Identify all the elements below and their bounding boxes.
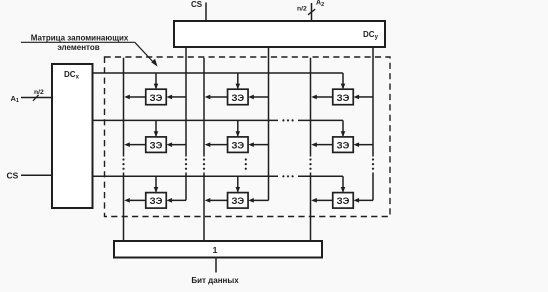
data line combiner box 1	[114, 241, 322, 258]
ellipsis on row wire X3	[282, 175, 293, 177]
svg-text:ЗЭ: ЗЭ	[150, 93, 163, 104]
svg-text:ЗЭ: ЗЭ	[337, 141, 350, 152]
row select wire X3	[93, 175, 344, 177]
bit line B3 (column 3)	[310, 58, 312, 241]
svg-text:CS: CS	[7, 171, 19, 181]
svg-text:ЗЭ: ЗЭ	[337, 196, 350, 207]
column select wire Y3 from DCy	[372, 47, 374, 200]
bus-width slash on A2	[308, 9, 315, 15]
svg-text:CS: CS	[191, 0, 203, 9]
memory cell ЗЭ row1 col3	[311, 73, 373, 105]
ellipsis on bit line B2	[203, 158, 205, 169]
memory cell ЗЭ row2 col1	[124, 120, 186, 152]
svg-text:ЗЭ: ЗЭ	[231, 93, 244, 104]
ellipsis on bit line B1	[122, 158, 124, 169]
wire A1 to DCx	[21, 97, 52, 99]
decoder DCx	[52, 64, 93, 208]
decoder DCy	[174, 21, 385, 47]
wire A2 to DCy	[311, 3, 313, 21]
label matrix title (Матрица запоминающих элементов)	[31, 34, 129, 52]
memory cell ЗЭ row1 col1	[124, 73, 186, 105]
bus-width slash on A1	[33, 95, 39, 101]
wire CS to DCy	[205, 3, 207, 22]
column select wire Y2 from DCy	[268, 47, 270, 200]
memory cell ЗЭ row3 col3	[311, 176, 373, 208]
svg-text:Бит данных: Бит данных	[191, 276, 239, 285]
svg-text:элементов: элементов	[57, 43, 99, 52]
row select wire X2	[93, 119, 344, 121]
row select wire X1	[93, 72, 344, 74]
ellipsis on column wire Y1	[185, 158, 187, 169]
bit line B2 (column 2)	[203, 58, 205, 241]
svg-text:ЗЭ: ЗЭ	[231, 141, 244, 152]
memory cell ЗЭ row2 col3	[311, 120, 373, 152]
stray ellipsis between columns	[245, 158, 247, 169]
svg-text:ЗЭ: ЗЭ	[150, 196, 163, 207]
svg-text:Матрица запоминающих: Матрица запоминающих	[31, 34, 129, 43]
wire data bit output	[215, 258, 217, 273]
ellipsis on row wire X2	[282, 119, 293, 121]
memory cell ЗЭ row2 col2	[205, 120, 269, 152]
svg-text:ЗЭ: ЗЭ	[337, 93, 350, 104]
memory cell ЗЭ row1 col2	[205, 73, 269, 105]
memory cell ЗЭ row3 col1	[124, 176, 186, 208]
svg-text:ЗЭ: ЗЭ	[150, 141, 163, 152]
svg-text:ЗЭ: ЗЭ	[231, 196, 244, 207]
svg-text:n/2: n/2	[34, 89, 44, 96]
svg-text:1: 1	[213, 245, 218, 255]
column select wire Y1 from DCy	[185, 47, 187, 200]
svg-text:n/2: n/2	[297, 6, 307, 13]
wire CS to DCx	[21, 174, 52, 176]
bit line B1 (column 1)	[123, 58, 125, 241]
dashed boundary of memory matrix	[105, 57, 391, 217]
memory cell ЗЭ row3 col2	[205, 176, 269, 208]
ellipsis on bit line B3	[309, 158, 311, 169]
ellipsis on column wire Y3	[372, 158, 374, 169]
leader line with arrow to matrix	[21, 42, 158, 66]
